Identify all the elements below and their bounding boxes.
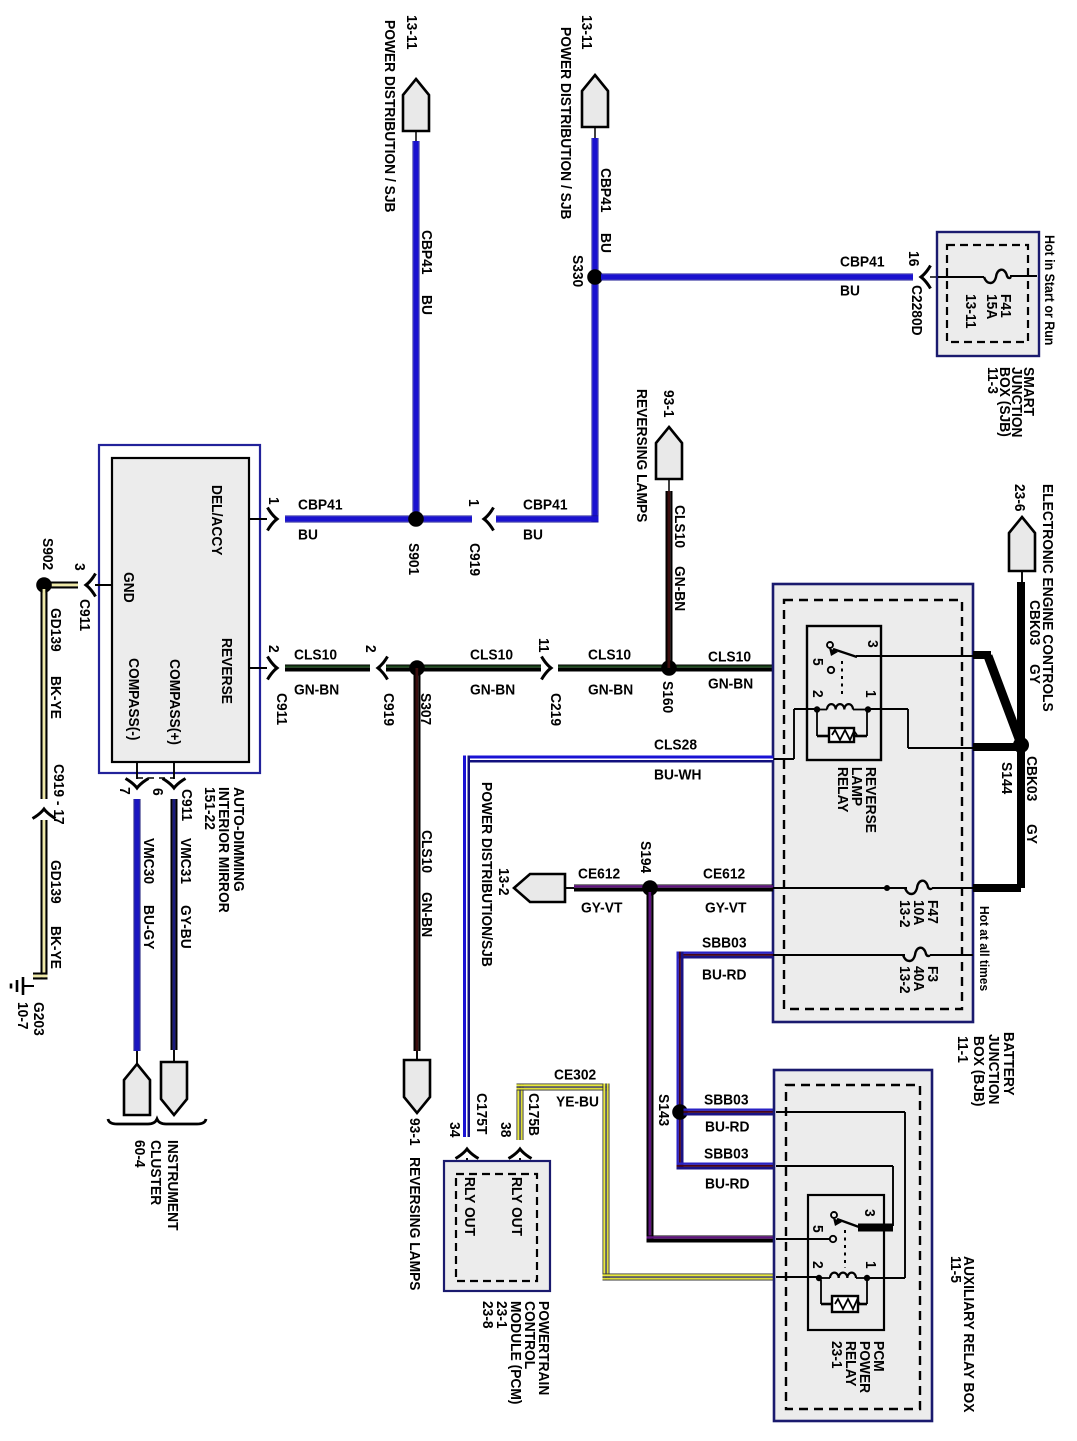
svg-text:38: 38: [497, 1122, 514, 1137]
pcm power relay box: [808, 1195, 884, 1330]
label wire CBP41 BU (P2 vertical): [597, 168, 614, 253]
label C175B: [525, 1093, 542, 1136]
svg-text:BK-YE: BK-YE: [47, 926, 64, 969]
svg-text:23-1: 23-1: [828, 1341, 845, 1369]
svg-text:INSTRUMENT: INSTRUMENT: [164, 1140, 181, 1231]
wire CBK03 GY thick diagonal: [988, 656, 1021, 744]
node S901: [408, 511, 424, 527]
label relay pin 3: [864, 640, 881, 648]
wire CE612 GY-VT horizontal to aux relay pin5: [647, 1236, 774, 1243]
connector arrow C219 pin 11 inline: [542, 657, 552, 680]
svg-text:CLS10: CLS10: [588, 647, 631, 664]
svg-text:15A: 15A: [983, 294, 1000, 319]
svg-text:GN-BN: GN-BN: [418, 892, 435, 937]
connector symbol P8 instrument cluster (VMC31): [161, 1050, 187, 1115]
svg-text:GD139: GD139: [47, 608, 64, 652]
svg-text:S902: S902: [39, 538, 56, 570]
svg-text:CE612: CE612: [703, 866, 745, 883]
label wire VMC31 GY-BU: [177, 838, 194, 949]
svg-text:CBP41: CBP41: [523, 497, 568, 514]
pin 1 lead: [249, 518, 267, 520]
wire into fuse F41: [938, 276, 1037, 277]
svg-text:CBP41: CBP41: [840, 254, 885, 271]
label RLY OUT (right): [508, 1177, 525, 1236]
wire GD139 BK-YE horizontal S902 to pin3: [44, 582, 78, 589]
fuse F3 line: [773, 954, 973, 956]
wire CBP41 BU horizontal S330 to C2280D: [601, 274, 913, 281]
svg-text:GN-BN: GN-BN: [294, 682, 339, 699]
connector symbol P4 REVERSING LAMPS 93-1: [404, 1051, 430, 1113]
fuse F41 symbol: [984, 270, 1011, 283]
svg-text:BOX (BJB): BOX (BJB): [970, 1036, 987, 1107]
label INSTRUMENT CLUSTER 60-4: [131, 1140, 181, 1231]
relay U1 dotted link: [841, 661, 843, 698]
label P3 93-1 REVERSING LAMPS: [633, 389, 677, 522]
wire CBK03 GY thick pin3 segment: [973, 651, 991, 659]
connector symbol P7 instrument cluster (VMC30): [124, 1051, 150, 1115]
svg-text:BU: BU: [840, 283, 860, 300]
label Hot in Start or Run: [1042, 235, 1057, 345]
wire GD139 BK-YE vertical lower: [33, 820, 48, 980]
svg-text:13-2: 13-2: [896, 900, 913, 928]
svg-text:BU-RD: BU-RD: [702, 967, 747, 984]
auxiliary relay box outline: [774, 1070, 932, 1421]
svg-text:C919: C919: [466, 543, 483, 576]
svg-text:CE302: CE302: [554, 1067, 596, 1084]
connector symbol P6 ELECTRONIC ENGINE CONTROLS: [1009, 517, 1035, 582]
auto-dimming interior mirror box: [99, 445, 260, 773]
label C911 (compass): [178, 789, 195, 821]
relay U2 resistor: [821, 1280, 867, 1312]
pin 6 lead: [173, 762, 175, 779]
wire SBB03 BU-RD from F3: [677, 952, 774, 959]
connector arrow C175B pin 38: [509, 1149, 532, 1176]
label S307: [417, 693, 434, 725]
fuse F47 junction dot: [884, 885, 890, 891]
label wire VMC30 BU-GY: [140, 838, 157, 950]
pin 7 lead: [136, 762, 138, 779]
svg-text:16: 16: [905, 251, 922, 266]
svg-text:BU: BU: [418, 295, 435, 315]
node S194: [642, 880, 658, 896]
svg-text:1: 1: [265, 497, 282, 505]
label wire CLS10 GN-BN (P3 vertical): [671, 505, 688, 611]
connector arrow C919 pin 2 inline: [378, 657, 388, 680]
svg-text:CBP41: CBP41: [298, 497, 343, 514]
relay U2 pin 5 lead: [776, 1238, 830, 1240]
label S143: [655, 1094, 672, 1126]
connector symbol P5 POWER DISTRIBUTION/SJB 13-2: [514, 874, 574, 902]
svg-text:GND: GND: [120, 572, 137, 603]
wire CE302 YE-BU vertical to arrow: [517, 1084, 524, 1141]
label pin 2 (C919): [362, 645, 379, 653]
relay U1 switch pivot: [827, 642, 838, 656]
label F47 10A 13-2: [896, 900, 941, 928]
svg-text:1: 1: [862, 1261, 879, 1269]
svg-text:GY-BU: GY-BU: [177, 905, 194, 949]
label wire SBB03 BU-RD seg2: [704, 1146, 750, 1193]
label relay pin 2: [809, 690, 826, 698]
svg-text:POWER DISTRIBUTION / SJB: POWER DISTRIBUTION / SJB: [557, 27, 574, 220]
label Hot at all times: [977, 906, 992, 991]
svg-text:BU: BU: [523, 527, 543, 544]
svg-text:REVERSING LAMPS: REVERSING LAMPS: [633, 389, 650, 522]
svg-text:YE-BU: YE-BU: [556, 1094, 599, 1111]
wire CE302 YE-BU horizontal top: [517, 1084, 610, 1091]
label wire SBB03 BU-RD seg0: [702, 935, 747, 984]
svg-text:BU-WH: BU-WH: [654, 767, 702, 784]
svg-text:GY: GY: [1023, 824, 1040, 844]
label POWERTRAIN CONTROL MODULE (PCM) 23-1 23-8: [479, 1301, 552, 1405]
label pin 6: [149, 788, 166, 796]
label REVERSE LAMP RELAY: [834, 767, 879, 833]
label relay U2 pin 3: [861, 1209, 878, 1217]
svg-text:S143: S143: [655, 1094, 672, 1126]
svg-text:13-11: 13-11: [962, 294, 979, 329]
label S144: [998, 762, 1015, 795]
powertrain control module box: [444, 1161, 550, 1291]
label pin DEL/ACCY: [208, 485, 225, 556]
svg-text:CLS10: CLS10: [470, 647, 513, 664]
connector arrow C919 pin 1 (CBP41): [484, 508, 494, 531]
wire CBP41 BU horizontal mirror to S901 to corner: [285, 516, 599, 523]
reverse lamp relay box: [807, 626, 881, 760]
svg-text:CLS10: CLS10: [418, 830, 435, 873]
svg-text:SBB03: SBB03: [704, 1146, 749, 1163]
label relay U2 pin 2: [809, 1261, 826, 1269]
svg-text:GN-BN: GN-BN: [588, 682, 633, 699]
relay U2 coil: [816, 1273, 870, 1282]
relay U2 pin 3 line: [858, 1224, 893, 1232]
svg-text:CBK03: CBK03: [1023, 756, 1040, 801]
svg-text:G203: G203: [30, 1002, 47, 1036]
label PCM POWER RELAY 23-1: [828, 1341, 887, 1393]
connector arrow pin 3 C911: [86, 574, 96, 597]
svg-text:POWER DISTRIBUTION / SJB: POWER DISTRIBUTION / SJB: [381, 20, 398, 213]
svg-text:GY-VT: GY-VT: [705, 900, 746, 917]
label BATTERY JUNCTION BOX (BJB) 11-1: [954, 1032, 1017, 1107]
connector symbol P2 POWER DISTRIBUTION/SJB 13-11: [582, 75, 608, 138]
label S194: [637, 841, 654, 874]
label pin 2: [265, 645, 282, 653]
label P4 93-1 REVERSING LAMPS: [406, 1118, 423, 1291]
connector symbol P3 REVERSING LAMPS 93-1: [656, 427, 682, 491]
svg-text:S901: S901: [405, 543, 422, 575]
wire VMC31 GY-BU vertical: [171, 799, 178, 1050]
wire CBK03 GY vertical P6 to S144: [1017, 582, 1025, 745]
node S160: [661, 660, 677, 676]
svg-text:BU-RD: BU-RD: [705, 1119, 750, 1136]
svg-text:6: 6: [149, 788, 166, 796]
svg-text:11-3: 11-3: [984, 367, 1001, 394]
fuse F47 line: [773, 887, 973, 889]
svg-text:11: 11: [535, 638, 552, 653]
relay U1 pin 2 route: [774, 709, 817, 759]
label wire CLS10 GN-BN seg1: [294, 647, 339, 699]
label F3 40A 13-2: [896, 966, 941, 994]
connector C911 dashed tie: [137, 777, 174, 779]
wire SBB03 BU-RD branch2: [677, 1163, 774, 1170]
svg-text:VMC31: VMC31: [177, 838, 194, 884]
label pin COMPASS(+): [166, 659, 183, 745]
label C919 (CBP41): [466, 543, 483, 576]
connector arrow pin 1 C911: [268, 508, 278, 531]
wire VMC30 BU-GY vertical: [134, 799, 141, 1051]
battery junction box outline: [773, 584, 973, 1022]
wire CLS10 GN-BN vertical P3 to S160: [666, 491, 673, 668]
relay U2 SBB03 branch2 route: [776, 1166, 893, 1226]
wire CLS10 GN-BN C919 to C219: [386, 665, 541, 672]
svg-text:RLY OUT: RLY OUT: [508, 1177, 525, 1236]
svg-text:Hot at all times: Hot at all times: [977, 906, 992, 991]
label wire CLS10 GN-BN seg2: [470, 647, 515, 699]
label S902: [39, 538, 56, 570]
svg-text:C175T: C175T: [473, 1093, 490, 1134]
label AUXILIARY RELAY BOX 11-5: [947, 1256, 977, 1412]
wire CE612 GY-VT vertical S194 down: [647, 892, 654, 1243]
svg-text:S194: S194: [637, 841, 654, 874]
svg-text:CLS28: CLS28: [654, 737, 697, 754]
svg-text:2: 2: [362, 645, 379, 653]
label wire CBK03 GY (lower): [1023, 756, 1040, 844]
svg-text:2: 2: [265, 645, 282, 653]
svg-text:93-1 REVERSING LAMPS: 93-1 REVERSING LAMPS: [406, 1118, 423, 1291]
svg-text:34: 34: [446, 1122, 463, 1138]
svg-text:S144: S144: [998, 762, 1015, 795]
svg-text:1: 1: [465, 499, 482, 507]
svg-text:GN-BN: GN-BN: [708, 676, 753, 693]
wire CE302 YE-BU vertical mid: [603, 1084, 610, 1281]
label wire SBB03 BU-RD seg1: [704, 1092, 750, 1136]
connector arrow pin 6: [163, 779, 186, 789]
wire CLS10 GN-BN vertical S307 to P4: [414, 668, 421, 1051]
label pin 1 (DEL/ACCY): [265, 497, 282, 505]
svg-text:C911: C911: [273, 693, 290, 725]
svg-text:COMPASS(+): COMPASS(+): [166, 659, 183, 745]
wire CLS10 GN-BN mirror to C919: [285, 665, 370, 672]
wire CE302 YE-BU horizontal to aux relay pin2: [603, 1274, 774, 1281]
label F41 15A 13-11: [962, 294, 1014, 329]
svg-text:C2280D: C2280D: [908, 285, 925, 336]
label wire CE302 YE-BU: [554, 1067, 599, 1111]
node S144: [1013, 737, 1029, 753]
svg-text:BU: BU: [298, 527, 318, 544]
svg-text:GN-BN: GN-BN: [470, 682, 515, 699]
label relay U2 pin 1: [862, 1261, 879, 1269]
label relay pin 1: [862, 690, 879, 698]
svg-text:13-11: 13-11: [403, 15, 420, 50]
label C2280D: [908, 285, 925, 336]
wire CLS28 BU-WH horizontal: [463, 756, 773, 763]
ground G203: [11, 977, 34, 995]
svg-text:5: 5: [809, 658, 826, 666]
svg-text:1: 1: [862, 690, 879, 698]
svg-text:13-2: 13-2: [495, 868, 512, 896]
node S143: [672, 1104, 688, 1120]
svg-text:RLY OUT: RLY OUT: [461, 1177, 478, 1236]
label pin REVERSE: [218, 638, 235, 704]
relay U2 SBB03 branch1 route: [776, 1112, 905, 1278]
label pin 38: [497, 1122, 514, 1137]
svg-text:3: 3: [864, 640, 881, 648]
svg-text:CLS10: CLS10: [294, 647, 337, 664]
svg-text:ELECTRONIC ENGINE CONTROLS: ELECTRONIC ENGINE CONTROLS: [1039, 484, 1056, 712]
svg-text:C919: C919: [380, 693, 397, 726]
label P6 23-6 ELECTRONIC ENGINE CONTROLS: [1011, 484, 1056, 712]
label wire CLS10 GN-BN seg4: [708, 649, 753, 693]
svg-text:13-11: 13-11: [578, 15, 595, 50]
label wire CBK03 GY (upper): [1026, 600, 1043, 684]
svg-text:C219: C219: [547, 693, 564, 726]
svg-text:23-6: 23-6: [1011, 484, 1028, 512]
relay U1 pin 3 line: [856, 655, 973, 657]
relay U2 dotted link: [844, 1230, 846, 1268]
fuse F3 symbol: [903, 948, 930, 961]
svg-text:CBP41: CBP41: [418, 230, 435, 275]
label P5 13-2 POWER DISTRIBUTION/SJB: [478, 782, 512, 967]
connector arrow pin 7: [126, 779, 149, 789]
label pin GND: [120, 572, 137, 603]
label pin 34: [446, 1122, 463, 1138]
label pin 7: [116, 787, 133, 795]
relay U1 coil: [814, 704, 871, 713]
label P2 13-11 POWER DISTRIBUTION / SJB: [557, 15, 595, 220]
label AUTO-DIMMING INTERIOR MIRROR 151-22: [201, 787, 247, 913]
label wire CLS28 BU-WH: [654, 737, 702, 784]
svg-text:CBP41: CBP41: [597, 168, 614, 213]
wire SBB03 BU-RD branch1: [684, 1109, 774, 1116]
relay U1 pin 1 route: [868, 709, 973, 748]
wire CLS10 GN-BN C219 to S160 to relay: [558, 665, 827, 672]
wire GD139 BK-YE vertical upper: [41, 589, 48, 799]
svg-text:BK-YE: BK-YE: [47, 676, 64, 719]
svg-text:5: 5: [809, 1225, 826, 1233]
svg-text:POWER DISTRIBUTION/SJB: POWER DISTRIBUTION/SJB: [478, 782, 495, 967]
label pin 1 (C919): [465, 499, 482, 507]
connector symbol P1 POWER DISTRIBUTION/SJB 13-11: [403, 79, 429, 141]
svg-text:7: 7: [116, 787, 133, 795]
relay U1 switch blade: [833, 649, 857, 657]
label relay U2 pin 5: [809, 1225, 826, 1233]
label wire CLS10 GN-BN (S307 vertical): [418, 830, 435, 937]
label wire CBP41 BU (right segment): [523, 497, 568, 544]
relay U2 switch pivot: [831, 1212, 842, 1226]
svg-text:23-8: 23-8: [479, 1301, 496, 1329]
label wire CLS10 GN-BN seg3: [588, 647, 633, 699]
svg-text:11-1: 11-1: [954, 1036, 971, 1063]
label G203 10-7: [14, 1002, 47, 1036]
svg-text:SBB03: SBB03: [704, 1092, 749, 1109]
label SMART JUNCTION BOX (SJB) 11-3: [984, 367, 1037, 438]
label C919 - 17: [50, 764, 67, 825]
label wire CE612 GY-VT seg2: [703, 866, 746, 917]
label P1 13-11 POWER DISTRIBUTION / SJB: [381, 15, 420, 213]
svg-text:C911: C911: [178, 789, 195, 821]
label C911 (REVERSE): [273, 693, 290, 725]
svg-text:RELAY: RELAY: [834, 767, 851, 813]
wire SBB03 BU-RD vertical to S143: [677, 952, 684, 1170]
label C919 (CLS10): [380, 693, 397, 726]
svg-text:60-4: 60-4: [131, 1140, 148, 1168]
fuse F47 symbol: [905, 881, 932, 894]
connector arrow C2280D pin 16: [921, 266, 938, 289]
svg-text:CLUSTER: CLUSTER: [147, 1140, 164, 1205]
svg-text:BU: BU: [597, 233, 614, 253]
svg-text:GY-VT: GY-VT: [581, 900, 622, 917]
label pin 3: [71, 563, 88, 571]
label wire CBP41 BU (P1 vertical): [418, 230, 435, 315]
svg-text:3: 3: [71, 563, 88, 571]
svg-text:C919 - 17: C919 - 17: [50, 764, 67, 825]
relay U2 pin 2 lead: [776, 1276, 817, 1278]
connector arrow C175T pin 34: [456, 1149, 479, 1176]
svg-text:REVERSE: REVERSE: [218, 638, 235, 704]
svg-text:SBB03: SBB03: [702, 935, 747, 952]
node S902: [36, 577, 52, 593]
svg-text:S160: S160: [659, 681, 676, 713]
svg-text:2: 2: [809, 1261, 826, 1269]
label pin COMPASS(-): [125, 658, 142, 741]
svg-text:GD139: GD139: [47, 860, 64, 904]
svg-text:151-22: 151-22: [201, 787, 218, 830]
svg-text:CE612: CE612: [578, 866, 620, 883]
label S160: [659, 681, 676, 713]
label S330: [569, 255, 586, 287]
svg-text:BU-GY: BU-GY: [140, 905, 157, 950]
svg-text:3: 3: [861, 1209, 878, 1217]
label pin 11: [535, 638, 552, 653]
svg-text:VMC30: VMC30: [140, 838, 157, 884]
label S901: [405, 543, 422, 575]
svg-text:Hot in Start or Run: Hot in Start or Run: [1042, 235, 1057, 345]
svg-text:CLS10: CLS10: [708, 649, 751, 666]
label pin 16: [905, 251, 922, 266]
label wire GD139 BK-YE (upper): [47, 608, 64, 719]
label wire CE612 GY-VT seg1: [578, 866, 622, 917]
svg-text:13-2: 13-2: [896, 966, 913, 994]
svg-text:2: 2: [809, 690, 826, 698]
svg-text:11-5: 11-5: [947, 1256, 964, 1283]
svg-text:GN-BN: GN-BN: [671, 566, 688, 611]
wire CLS28 BU-WH vertical: [463, 756, 470, 1138]
svg-text:DEL/ACCY: DEL/ACCY: [208, 485, 225, 556]
wire CBK03 GY vertical S144 to F47: [973, 745, 1025, 892]
svg-text:93-1: 93-1: [660, 390, 677, 418]
label RLY OUT (left): [461, 1177, 478, 1236]
svg-text:C175B: C175B: [525, 1093, 542, 1136]
wire CE612 GY-VT P5 to BJB: [574, 885, 773, 892]
relay U1 pin 5 contact: [828, 667, 834, 673]
connector arrow C919-17 inline: [33, 809, 56, 819]
pin 3 lead: [95, 584, 112, 586]
label C175T: [473, 1093, 490, 1134]
label wire CBP41 BU (to SJB): [840, 254, 885, 300]
label wire GD139 BK-YE (lower): [47, 860, 64, 969]
label relay pin 5: [809, 658, 826, 666]
wire CBP41 BU vertical P2 through S330 to corner: [592, 138, 599, 523]
connector arrow pin 2 C911: [268, 657, 278, 680]
label C219: [547, 693, 564, 726]
wire CBK03 GY thick pin1 segment: [973, 743, 1021, 751]
node S307: [409, 660, 425, 676]
svg-text:BU-RD: BU-RD: [705, 1176, 750, 1193]
node S330: [587, 269, 603, 285]
relay U2 switch blade: [837, 1219, 859, 1227]
instrument cluster brace: [108, 1119, 206, 1124]
svg-text:S330: S330: [569, 255, 586, 287]
svg-text:COMPASS(-): COMPASS(-): [125, 658, 142, 741]
relay U2 pin 5 contact: [830, 1236, 836, 1242]
